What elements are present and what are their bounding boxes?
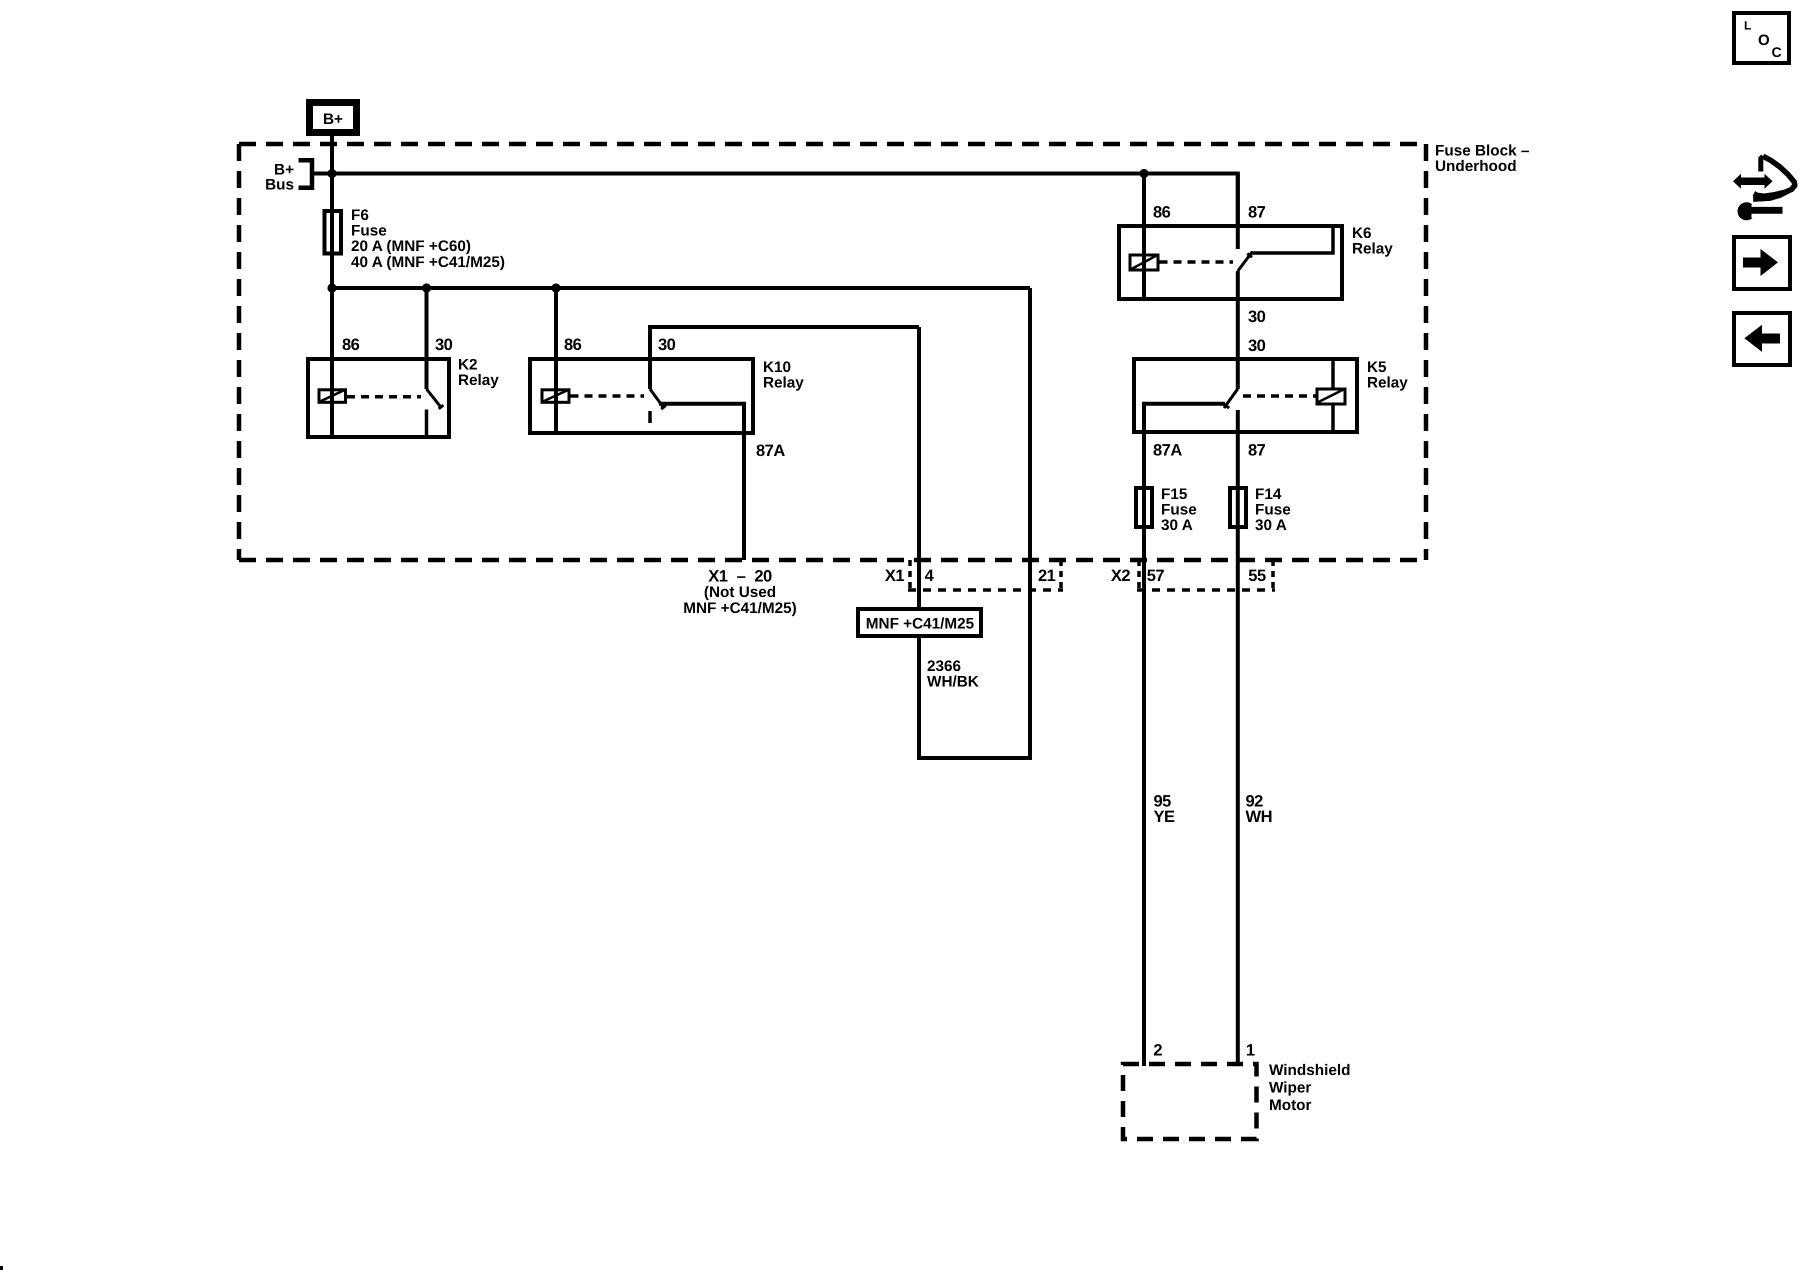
svg-text:30: 30 bbox=[435, 336, 453, 354]
svg-text:21: 21 bbox=[1038, 567, 1056, 585]
svg-text:K10: K10 bbox=[763, 359, 791, 376]
svg-text:30: 30 bbox=[1248, 337, 1266, 355]
relay K2 bbox=[308, 288, 499, 437]
wire connector X1 pin 21 loop down to 2366 return bbox=[917, 288, 1030, 758]
connector X2 bbox=[1111, 560, 1275, 592]
relay K2 87A contact stub bbox=[425, 410, 429, 438]
svg-text:B+: B+ bbox=[323, 111, 343, 128]
relay K2 coil slash bbox=[320, 390, 345, 402]
svg-text:87: 87 bbox=[1248, 204, 1266, 222]
connector X1 dashed bottom edge bbox=[908, 588, 1063, 592]
relay K6 coil-to-switch dashed link bbox=[1160, 260, 1234, 264]
svg-text:20 A (MNF +C60): 20 A (MNF +C60) bbox=[351, 238, 471, 255]
wire label 92 WH bbox=[1246, 793, 1273, 827]
svg-text:40 A (MNF +C41/M25): 40 A (MNF +C41/M25) bbox=[351, 254, 505, 271]
fuse F14 bbox=[1230, 488, 1246, 527]
svg-text:55: 55 bbox=[1248, 567, 1266, 585]
label F15 Fuse 30 A bbox=[1161, 486, 1197, 534]
svg-text:4: 4 bbox=[925, 567, 935, 585]
junction dot B+ bus / K6 pin 86 branch bbox=[1139, 169, 1148, 178]
component location icon vehicle outline bbox=[1753, 156, 1795, 199]
wire K10 pin 87A down to connector X1-20 bbox=[659, 404, 744, 560]
wire B+ bus horizontal to K6 pin 87 bbox=[312, 174, 1238, 225]
relay K2 switch blade bbox=[427, 389, 442, 407]
relay K5 switch blade bbox=[1224, 389, 1238, 408]
relay K10 unused contact stub bbox=[648, 411, 652, 423]
relay K10 switch blade bbox=[650, 389, 664, 408]
relay K10 coil-to-switch dashed link bbox=[571, 394, 645, 398]
connector X1 dashed right edge bbox=[1059, 560, 1063, 592]
svg-text:87A: 87A bbox=[1153, 442, 1182, 460]
svg-text:Fuse: Fuse bbox=[351, 223, 387, 240]
svg-text:YE: YE bbox=[1154, 808, 1176, 826]
relay K5 coil wire lower bbox=[1331, 405, 1335, 435]
svg-text:86: 86 bbox=[1153, 204, 1171, 222]
relay K5 87A contact path bbox=[1144, 404, 1225, 434]
svg-text:F6: F6 bbox=[351, 207, 369, 224]
power terminal B+ bbox=[310, 103, 357, 133]
relay K5 switch blade tick bbox=[1224, 405, 1229, 409]
fuse block dashed border right bbox=[1424, 144, 1429, 560]
component location icon wrench bbox=[1738, 202, 1783, 220]
wire label 2366 WH/BK bbox=[927, 658, 979, 691]
wire fused bus to K10 pin 86 through coil bbox=[554, 288, 558, 435]
connector X1 dashed left edge bbox=[908, 560, 912, 592]
fuse block underhood dashed border top bbox=[239, 142, 1426, 147]
relay K5 coil wire upper bbox=[1331, 357, 1335, 388]
LOC icon box bbox=[1734, 13, 1789, 63]
relay K6 bbox=[1119, 174, 1393, 390]
svg-text:Wiper: Wiper bbox=[1269, 1079, 1311, 1096]
connector X2 dashed left edge bbox=[1137, 560, 1141, 592]
relay K5 coil slash bbox=[1319, 390, 1344, 403]
wire circuit 2366 through connector X1 pin 4 and MNF connector bbox=[917, 327, 921, 758]
svg-text:Relay: Relay bbox=[763, 375, 804, 392]
svg-text:30 A: 30 A bbox=[1255, 517, 1287, 534]
label B+ Bus bbox=[265, 162, 294, 194]
svg-text:Relay: Relay bbox=[1367, 375, 1408, 392]
windshield wiper motor dashed box bbox=[1123, 1064, 1257, 1139]
svg-text:87A: 87A bbox=[756, 442, 785, 460]
label Fuse Block - Underhood bbox=[1435, 143, 1530, 176]
svg-text:2366: 2366 bbox=[927, 658, 961, 675]
svg-text:Fuse Block –: Fuse Block – bbox=[1435, 143, 1530, 160]
wire K6 pin 30 down to K5 pin 30 bbox=[1236, 271, 1240, 389]
svg-text:30 A: 30 A bbox=[1161, 517, 1193, 534]
wire K10 pin 30 up and right to connector X1 pin 4 bbox=[650, 327, 919, 389]
wire B+ bus to K6 pin 86 through coil bbox=[1142, 174, 1146, 302]
svg-text:Bus: Bus bbox=[265, 177, 294, 194]
svg-text:F15: F15 bbox=[1161, 486, 1188, 503]
relay K5 bbox=[1134, 337, 1408, 460]
connector MNF +C41/M25 bbox=[858, 609, 981, 636]
component location icon double arrow bbox=[1733, 174, 1773, 189]
relay K2 switch blade tick bbox=[439, 405, 444, 409]
wire fused bus horizontal below F6 bbox=[332, 286, 1030, 290]
svg-text:K6: K6 bbox=[1352, 225, 1372, 242]
svg-text:WH: WH bbox=[1246, 808, 1273, 826]
label Windshield Wiper Motor bbox=[1269, 1062, 1350, 1114]
relay K10 box bbox=[530, 359, 753, 433]
svg-text:Windshield: Windshield bbox=[1269, 1062, 1350, 1079]
svg-text:L: L bbox=[1744, 19, 1751, 33]
svg-text:Fuse: Fuse bbox=[1161, 502, 1197, 519]
fuse block dashed border bottom bbox=[239, 558, 1426, 563]
relay K5 coil bbox=[1317, 389, 1345, 404]
svg-text:(Not Used: (Not Used bbox=[704, 584, 776, 601]
relay K10 switch blade tick bbox=[661, 405, 666, 409]
relay K6 switch blade tick bbox=[1247, 254, 1252, 258]
wire circuit 95 from K5 87A through F15 and X2-57 to motor pin 2 bbox=[1142, 434, 1146, 1066]
relay K6 fixed contact path bbox=[1252, 226, 1333, 253]
svg-text:1: 1 bbox=[1246, 1041, 1255, 1059]
svg-text:Relay: Relay bbox=[1352, 241, 1393, 258]
relay K6 switch blade bbox=[1238, 252, 1253, 272]
wire label 95 YE bbox=[1154, 793, 1176, 827]
connector X2 dashed bottom edge bbox=[1137, 588, 1275, 592]
relay K5 coil-to-switch dashed link bbox=[1243, 394, 1316, 398]
svg-text:K2: K2 bbox=[458, 357, 478, 374]
relay K2 coil-to-switch dashed link bbox=[347, 395, 421, 399]
svg-text:Fuse: Fuse bbox=[1255, 502, 1291, 519]
svg-text:Relay: Relay bbox=[458, 372, 499, 389]
relay K10 bbox=[530, 288, 919, 560]
svg-text:F14: F14 bbox=[1255, 486, 1282, 503]
relay K5 box bbox=[1134, 359, 1357, 432]
label F6 Fuse 20 A / 40 A bbox=[351, 207, 505, 271]
relay K10 coil slash bbox=[543, 390, 568, 402]
node B+ Bus bracket bbox=[299, 160, 313, 187]
junction dot B+ bus / F6 branch bbox=[327, 169, 336, 178]
svg-text:X1: X1 bbox=[885, 567, 905, 585]
svg-text:K5: K5 bbox=[1367, 359, 1387, 376]
label F14 Fuse 30 A bbox=[1255, 486, 1291, 534]
connector X2 dashed right edge bbox=[1271, 560, 1275, 592]
svg-text:O: O bbox=[1758, 32, 1770, 49]
relay K10 coil bbox=[542, 390, 569, 403]
svg-text:C: C bbox=[1772, 44, 1782, 60]
svg-text:WH/BK: WH/BK bbox=[927, 674, 979, 691]
svg-text:30: 30 bbox=[1248, 308, 1266, 326]
svg-text:86: 86 bbox=[564, 336, 582, 354]
connector X1 bbox=[885, 560, 1063, 592]
relay K2 box bbox=[308, 359, 449, 437]
svg-text:2: 2 bbox=[1153, 1041, 1162, 1059]
relay K6 box bbox=[1119, 226, 1342, 299]
forward navigation arrow icon bbox=[1734, 237, 1790, 289]
junction dot fused bus / K2 pin 30 bbox=[422, 283, 431, 292]
svg-text:30: 30 bbox=[658, 336, 676, 354]
svg-text:57: 57 bbox=[1147, 567, 1165, 585]
svg-text:X1 – 20: X1 – 20 bbox=[708, 568, 772, 586]
fuse F6 bbox=[325, 211, 342, 254]
wire fused bus to K2 pin 30 bbox=[425, 288, 429, 389]
relay K6 pin 87 contact stub bbox=[1236, 174, 1240, 250]
svg-text:MNF +C41/M25): MNF +C41/M25) bbox=[683, 600, 796, 617]
junction dot fused bus / K2 pin 86 bbox=[327, 283, 336, 292]
relay K2 coil bbox=[319, 390, 346, 403]
svg-text:87: 87 bbox=[1248, 442, 1266, 460]
svg-text:86: 86 bbox=[342, 336, 360, 354]
junction dot fused bus / K10 pin 86 bbox=[551, 283, 560, 292]
fuse F15 bbox=[1136, 488, 1152, 527]
relay K6 coil bbox=[1130, 255, 1158, 270]
svg-text:X2: X2 bbox=[1111, 567, 1131, 585]
back navigation arrow icon bbox=[1734, 313, 1790, 365]
wire B+ terminal down through F6 to K2 pin 86 bbox=[330, 136, 334, 437]
svg-text:MNF +C41/M25: MNF +C41/M25 bbox=[866, 616, 975, 633]
label X1 - 20 Not Used bbox=[683, 568, 796, 617]
svg-text:Underhood: Underhood bbox=[1435, 158, 1517, 175]
svg-text:Motor: Motor bbox=[1269, 1097, 1312, 1114]
relay K6 coil slash bbox=[1132, 256, 1157, 270]
stray mark bottom left bbox=[0, 1266, 3, 1270]
fuse block dashed border left bbox=[237, 144, 242, 560]
wire circuit 92 from K5 87 through F14 and X2-55 to motor pin 1 bbox=[1236, 410, 1240, 1066]
